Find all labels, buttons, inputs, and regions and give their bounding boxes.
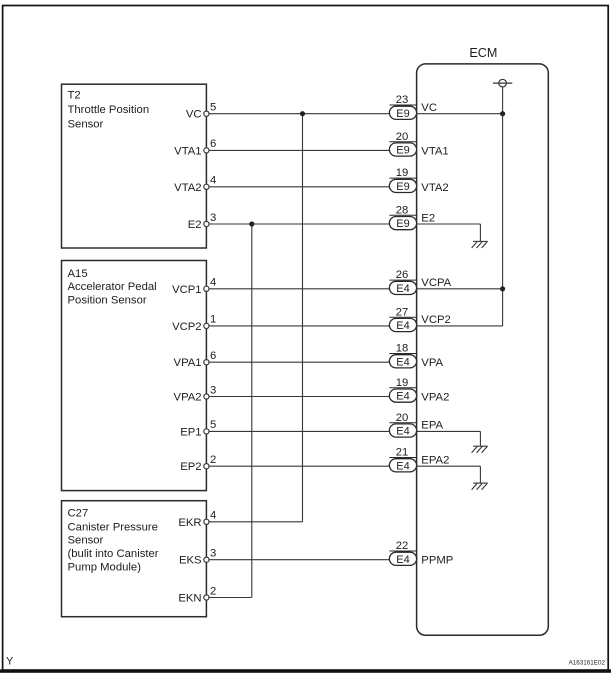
wire internal supply rail from power symbol to VCP2 — [502, 87, 504, 326]
svg-text:E2: E2 — [188, 219, 202, 231]
svg-text:VC: VC — [186, 109, 202, 121]
wire EKN from C27 pin 2 to E2 tap — [209, 597, 252, 599]
wire E2 branch down to EKN — [251, 224, 253, 598]
wire EKS from C27 pin 3 to ECM E4-22 — [209, 559, 390, 561]
frame bottom band — [0, 669, 611, 672]
pin VCP1 of sensor, terminal circle — [204, 286, 209, 291]
connector E4 pin 27 oval — [389, 318, 416, 331]
ground EPA internal ground — [472, 431, 488, 452]
pin EP1 of sensor, terminal circle — [204, 429, 209, 434]
svg-text:21: 21 — [396, 447, 409, 459]
module ECM box — [417, 64, 549, 635]
pin VPA1 of sensor, terminal circle — [204, 360, 209, 365]
svg-text:4: 4 — [210, 510, 216, 522]
svg-text:ECM: ECM — [469, 46, 497, 60]
wire VCP1 from A15 pin 4 to ECM E4-26 — [209, 288, 390, 290]
wire VTA1 from T2 pin 6 to ECM E9-20 — [209, 149, 390, 151]
wire internal VC to supply rail — [417, 113, 503, 115]
label terminal number 28 with underline — [389, 214, 417, 216]
svg-text:Pump Module): Pump Module) — [68, 562, 142, 574]
svg-text:1: 1 — [210, 314, 216, 326]
wire VC branch down to EKR — [302, 114, 304, 522]
label terminal number 27 with underline — [389, 316, 417, 318]
label terminal number 26 with underline — [389, 279, 417, 281]
svg-text:4: 4 — [210, 277, 216, 289]
wire internal E2 to ground — [417, 223, 481, 225]
wire internal EPA to ground — [417, 430, 481, 432]
connector E4 pin 22 oval — [389, 552, 416, 565]
pin EKR of sensor, terminal circle — [204, 519, 209, 524]
svg-text:VCP2: VCP2 — [172, 321, 202, 333]
pin VCP2 of sensor, terminal circle — [204, 323, 209, 328]
svg-text:VPA2: VPA2 — [174, 392, 202, 404]
pin VC of sensor, terminal circle — [204, 111, 209, 116]
wire internal VCP2 to supply rail — [417, 325, 503, 327]
svg-text:Canister Pressure: Canister Pressure — [68, 521, 158, 533]
wire EKR from C27 pin 4 to VC tap — [209, 521, 303, 523]
svg-text:EP1: EP1 — [180, 426, 201, 438]
svg-text:19: 19 — [396, 377, 409, 389]
svg-text:3: 3 — [210, 548, 216, 560]
pin EKN of sensor, terminal circle — [204, 595, 209, 600]
label terminal number 19 with underline — [389, 177, 417, 179]
svg-text:EPA2: EPA2 — [421, 455, 449, 467]
svg-text:E4: E4 — [396, 460, 409, 472]
pin VTA2 of sensor, terminal circle — [204, 184, 209, 189]
pin VTA1 of sensor, terminal circle — [204, 148, 209, 153]
svg-text:19: 19 — [396, 167, 409, 179]
wire E2 from T2 pin 3 to ECM E9-28 — [209, 223, 390, 225]
wire internal EPA2 to ground — [417, 465, 481, 467]
svg-text:Throttle Position: Throttle Position — [68, 104, 150, 116]
svg-text:Accelerator Pedal: Accelerator Pedal — [68, 281, 157, 293]
svg-text:E4: E4 — [396, 356, 409, 368]
svg-text:2: 2 — [210, 585, 216, 597]
node VC/rail junction junction dot — [500, 111, 505, 116]
svg-text:VPA2: VPA2 — [421, 392, 449, 404]
svg-text:28: 28 — [396, 204, 409, 216]
ground EPA2 internal ground — [472, 466, 488, 490]
svg-text:E2: E2 — [421, 212, 435, 224]
svg-text:Sensor: Sensor — [68, 119, 104, 131]
svg-text:(bulit into Canister: (bulit into Canister — [68, 548, 159, 560]
sensor T2 box — [62, 84, 207, 248]
svg-text:E4: E4 — [396, 320, 409, 332]
svg-text:6: 6 — [210, 350, 216, 362]
pin E2 of sensor, terminal circle — [204, 221, 209, 226]
connector E4 pin 26 oval — [389, 281, 416, 294]
label terminal number 21 with underline — [389, 457, 417, 459]
svg-text:4: 4 — [210, 175, 216, 187]
svg-text:VCP1: VCP1 — [172, 284, 202, 296]
connector E4 pin 19 oval — [389, 389, 416, 402]
svg-text:E9: E9 — [396, 218, 409, 230]
svg-text:EKS: EKS — [179, 555, 202, 567]
label terminal number 18 with underline — [389, 353, 417, 355]
svg-text:22: 22 — [396, 540, 409, 552]
svg-text:VC: VC — [421, 102, 437, 114]
svg-text:VPA: VPA — [421, 357, 443, 369]
pin EKS of sensor, terminal circle — [204, 557, 209, 562]
node VCPA/rail junction junction dot — [500, 286, 505, 291]
svg-text:3: 3 — [210, 212, 216, 224]
svg-text:VCP2: VCP2 — [421, 314, 451, 326]
node VC/EKR junction junction dot — [300, 111, 305, 116]
wire internal VCPA to supply rail — [417, 288, 503, 290]
svg-text:VTA2: VTA2 — [174, 182, 201, 194]
svg-text:EPA: EPA — [421, 420, 443, 432]
label terminal number 23 with underline — [389, 104, 417, 106]
wire VPA2 from A15 pin 3 to ECM E4-19 — [209, 396, 390, 398]
svg-text:Position Sensor: Position Sensor — [68, 295, 147, 307]
svg-text:18: 18 — [396, 343, 409, 355]
svg-text:5: 5 — [210, 419, 216, 431]
svg-text:VTA1: VTA1 — [421, 145, 448, 157]
label terminal number 22 with underline — [389, 550, 417, 552]
pin VPA2 of sensor, terminal circle — [204, 394, 209, 399]
svg-text:E9: E9 — [396, 181, 409, 193]
wire VC from T2 pin 5 to ECM E9-23 — [209, 113, 390, 115]
svg-text:26: 26 — [396, 269, 409, 281]
svg-text:Y: Y — [6, 656, 14, 668]
svg-text:3: 3 — [210, 384, 216, 396]
svg-text:VCPA: VCPA — [421, 277, 451, 289]
svg-text:E4: E4 — [396, 426, 409, 438]
svg-text:VTA2: VTA2 — [421, 182, 448, 194]
svg-text:A15: A15 — [68, 268, 88, 280]
svg-text:E4: E4 — [396, 554, 409, 566]
wire VCP2 from A15 pin 1 to ECM E4-27 — [209, 325, 390, 327]
svg-text:5: 5 — [210, 102, 216, 114]
svg-text:EKN: EKN — [178, 593, 201, 605]
ground E2 internal ground — [472, 224, 488, 248]
svg-text:E9: E9 — [396, 108, 409, 120]
connector E9 pin 28 oval — [389, 217, 416, 230]
connector E4 pin 21 oval — [389, 459, 416, 472]
svg-text:Sensor: Sensor — [68, 535, 104, 547]
svg-text:C27: C27 — [68, 508, 89, 520]
svg-text:2: 2 — [210, 454, 216, 466]
power source symbol inside ECM — [493, 79, 512, 87]
svg-text:27: 27 — [396, 306, 409, 318]
node E2/EKN junction junction dot — [249, 221, 254, 226]
svg-text:T2: T2 — [68, 90, 81, 102]
label terminal number 19 with underline — [389, 387, 417, 389]
wire VTA2 from T2 pin 4 to ECM E9-19 — [209, 186, 390, 188]
svg-text:20: 20 — [396, 412, 409, 424]
svg-text:23: 23 — [396, 94, 409, 106]
connector E9 pin 23 oval — [389, 106, 416, 119]
svg-text:E4: E4 — [396, 391, 409, 403]
svg-text:EKR: EKR — [178, 517, 201, 529]
svg-text:20: 20 — [396, 131, 409, 143]
svg-text:E4: E4 — [396, 283, 409, 295]
wire EP2 from A15 pin 2 to ECM E4-21 — [209, 465, 390, 467]
wire EP1 from A15 pin 5 to ECM E4-20 — [209, 430, 390, 432]
label terminal number 20 with underline — [389, 422, 417, 424]
svg-text:E9: E9 — [396, 145, 409, 157]
svg-text:6: 6 — [210, 138, 216, 150]
sensor C27 box — [62, 501, 207, 617]
label terminal number 20 with underline — [389, 141, 417, 143]
svg-text:PPMP: PPMP — [421, 555, 453, 567]
connector E9 pin 19 oval — [389, 179, 416, 192]
pin EP2 of sensor, terminal circle — [204, 464, 209, 469]
connector E4 pin 20 oval — [389, 424, 416, 437]
sensor A15 box — [62, 261, 207, 491]
svg-text:EP2: EP2 — [180, 461, 201, 473]
svg-text:VPA1: VPA1 — [174, 357, 202, 369]
svg-text:VTA1: VTA1 — [174, 145, 201, 157]
connector E4 pin 18 oval — [389, 355, 416, 368]
wire VPA1 from A15 pin 6 to ECM E4-18 — [209, 361, 390, 363]
connector E9 pin 20 oval — [389, 143, 416, 156]
svg-text:A163161E02: A163161E02 — [569, 660, 606, 667]
